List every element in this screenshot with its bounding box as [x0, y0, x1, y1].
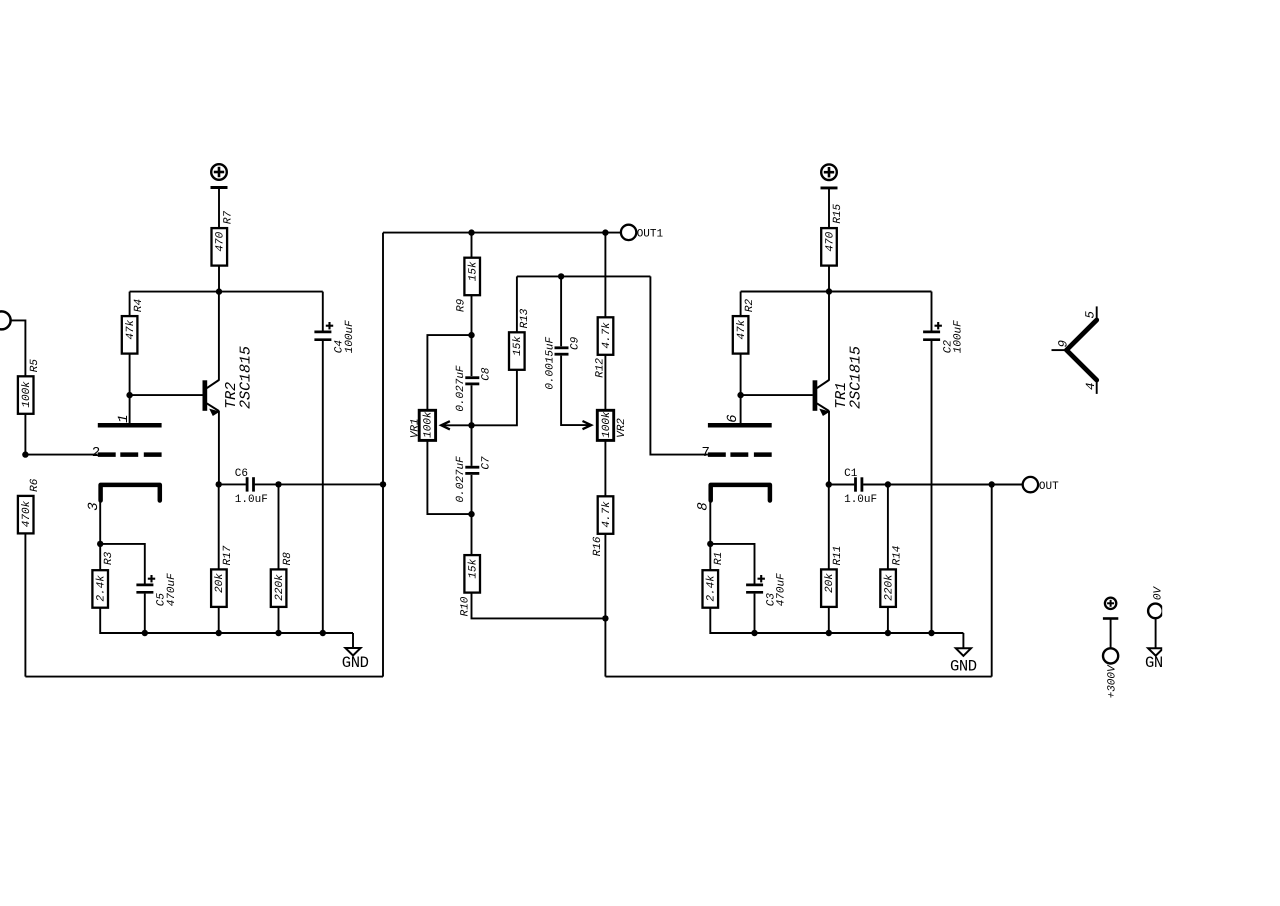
svg-text:47k: 47k — [125, 318, 137, 341]
node C7/R10/VR1 junction — [468, 511, 474, 517]
svg-text:47k: 47k — [736, 318, 748, 341]
resistor R17 — [218, 484, 220, 569]
terminal OUT1 — [621, 225, 636, 240]
node grid junction (R5/R6/grid) — [22, 451, 28, 457]
wire OUT node to terminal — [992, 484, 1023, 486]
supply symbol +300V — [1105, 598, 1116, 609]
wire VR2 to R16 — [604, 440, 606, 496]
ground symbol GND (left) — [345, 648, 360, 656]
wire rail to GND stub (left) — [352, 633, 354, 648]
capacitor C8 — [471, 335, 473, 376]
wire C6 line to feedback riser — [279, 483, 384, 485]
wire C1 line to OUT node — [888, 484, 992, 486]
wire +B to R15 — [828, 188, 830, 228]
plus mark of C4 — [326, 325, 333, 327]
node R9/C8/VR1 junction — [468, 332, 474, 338]
wire C8 to wiper node — [471, 385, 473, 425]
wire TR1 emitter down to C1 line — [828, 411, 830, 485]
wire R8 to ground rail — [278, 607, 280, 633]
plus mark of C3 — [758, 578, 765, 580]
wire C6 to R8 node — [255, 483, 279, 485]
svg-text:20k: 20k — [214, 572, 226, 595]
svg-text:OUT1: OUT1 — [637, 229, 664, 241]
resistor R15 — [821, 228, 837, 266]
capacitor C5 (electrolytic) — [136, 584, 153, 587]
wire feedback drop (right) — [604, 618, 606, 676]
svg-text:2.4k: 2.4k — [96, 574, 108, 603]
wire TR2 emitter down to C6 line — [218, 411, 220, 485]
tube V2 grid dashes (pin 7) — [708, 452, 726, 457]
node OUT1 branch junction — [602, 229, 608, 235]
svg-text:220k: 220k — [274, 573, 286, 602]
power symbol +B (left) — [211, 164, 227, 180]
wire bias node to C5 — [100, 544, 145, 584]
svg-text:0.027uF: 0.027uF — [455, 364, 467, 413]
svg-text:GND: GND — [950, 657, 977, 675]
capacitor C9 — [560, 276, 562, 346]
svg-text:R13: R13 — [519, 308, 531, 330]
svg-text:7: 7 — [702, 445, 710, 461]
node R11 ground junction — [826, 630, 832, 636]
wire R5 to grid node — [24, 414, 26, 455]
wire 0V to GND — [1155, 618, 1157, 648]
node R9 top junction — [468, 229, 474, 235]
svg-text:R15: R15 — [832, 203, 844, 225]
capacitor C3 (electrolytic) — [746, 584, 763, 587]
node collector/plate supply junction (right) — [826, 288, 832, 294]
svg-text:1.0uF: 1.0uF — [844, 494, 877, 506]
svg-text:R10: R10 — [460, 596, 472, 618]
svg-text:470k: 470k — [21, 499, 33, 528]
node base/plate junction (left) — [126, 392, 132, 398]
capacitor C7 — [471, 425, 473, 466]
svg-text:R2: R2 — [744, 298, 756, 314]
plus mark of C2 — [935, 325, 942, 327]
resistor R5 — [18, 376, 34, 414]
wire feedback bottom (right stage) — [605, 676, 991, 678]
node collector/plate supply junction (left) — [216, 288, 222, 294]
wire R12 to VR2 — [604, 355, 606, 411]
svg-text:470: 470 — [215, 231, 227, 253]
svg-text:VR2: VR2 — [616, 417, 628, 439]
wire R15 to collector node — [828, 266, 830, 292]
wire R13 to treble line — [516, 276, 518, 332]
svg-text:R14: R14 — [891, 544, 903, 567]
wire base node to tube V1 plate — [129, 395, 131, 423]
wire R11 to ground rail — [828, 607, 830, 633]
svg-text:R7: R7 — [223, 210, 235, 226]
wire R14 to ground rail — [887, 607, 889, 633]
wire wiper node to VR1 arrow — [444, 424, 472, 426]
node TR1 emitter / C1 junction — [826, 481, 832, 487]
canvas clip edge (white mask, right) — [1162, 0, 1280, 906]
svg-text:R16: R16 — [592, 535, 604, 557]
wire treble top line — [517, 275, 651, 277]
node R8 ground junction — [275, 630, 281, 636]
wire C9 to VR2 arrow — [561, 356, 590, 426]
supply terminal 0V — [1148, 604, 1163, 619]
wire rail to GND stub (right) — [962, 633, 964, 648]
svg-text:4.7k: 4.7k — [601, 500, 613, 529]
resistor R6 — [18, 496, 34, 534]
wire input terminal to R5 — [11, 320, 26, 376]
wire R9 to C8 node — [471, 295, 473, 335]
wire OUT1 line (top) — [383, 232, 621, 234]
wire R1 to ground rail — [710, 608, 754, 633]
wire R10 to bass return node — [472, 593, 606, 619]
wire bias node to C3 — [710, 544, 754, 584]
potentiometer VR2 — [597, 410, 613, 440]
wire base node to TR1 base — [741, 394, 813, 396]
wire node to VR1 top — [427, 335, 471, 410]
node base/plate junction (right) — [737, 392, 743, 398]
svg-text:100uF: 100uF — [953, 319, 965, 354]
wire C1 to R14 node — [863, 484, 888, 486]
resistor R8 — [278, 484, 280, 569]
capacitor C1 — [854, 477, 857, 491]
svg-text:220k: 220k — [883, 573, 895, 602]
terminal OUT — [1023, 477, 1038, 492]
svg-text:C7: C7 — [480, 455, 492, 471]
heater pin 9 stub — [1052, 349, 1066, 351]
wire grid node to tube V1 grid — [25, 454, 97, 456]
transistor TR2 — [203, 380, 208, 411]
wire collector node horizontal (R4 to C4) — [130, 291, 323, 293]
svg-text:100k: 100k — [21, 380, 33, 409]
ground symbol GND (right) — [956, 648, 971, 656]
node C1/R14 junction — [885, 481, 891, 487]
tube V1 plate bar (pin 1) — [98, 423, 162, 428]
wire base node to TR2 base — [130, 394, 203, 396]
tube V1 grid dashes (pin 2) — [98, 452, 116, 457]
wire bias node to R3 — [99, 544, 101, 570]
resistor R1 — [703, 570, 719, 608]
node VR1 wiper junction — [468, 422, 474, 428]
node C9 top junction — [558, 273, 564, 279]
wire R17 to ground rail — [218, 607, 220, 633]
tube V1 cathode (pin 3) — [101, 485, 160, 501]
wire C7 to R10 node — [471, 475, 473, 514]
tube V2 plate bar (pin 6) — [708, 423, 772, 428]
heater pin 5 stub — [1096, 306, 1098, 318]
wire bias node to R1 — [709, 544, 711, 570]
svg-text:+300V: +300V — [1107, 664, 1119, 700]
svg-text:100k: 100k — [423, 410, 435, 439]
wire C2 to ground rail — [931, 341, 933, 633]
svg-text:R11: R11 — [832, 544, 844, 567]
wire C5 to ground rail — [144, 594, 146, 633]
svg-text:C1: C1 — [844, 468, 858, 480]
potentiometer VR1 — [419, 410, 435, 440]
svg-text:2SC1815: 2SC1815 — [237, 344, 255, 411]
ground symbol GND (supply) — [1148, 648, 1163, 656]
resistor R11 — [828, 485, 830, 570]
svg-text:R3: R3 — [103, 551, 115, 567]
svg-text:C8: C8 — [480, 367, 492, 383]
svg-text:C6: C6 — [235, 468, 248, 480]
input terminal — [0, 311, 11, 329]
svg-text:470uF: 470uF — [776, 572, 788, 607]
svg-text:VR1: VR1 — [410, 417, 422, 440]
wire R7 to collector node — [218, 266, 220, 292]
node C5 ground junction — [142, 630, 148, 636]
capacitor C2 (electrolytic) — [931, 292, 933, 331]
resistor R13 — [509, 332, 525, 370]
wire VR1 bottom to C7 node — [427, 440, 471, 514]
node OUT junction — [989, 481, 995, 487]
node bass return junction — [602, 615, 608, 621]
wiper arrow of VR2 — [583, 421, 592, 429]
node R17 ground junction — [216, 630, 222, 636]
wire collector node horizontal (R2 to C2) — [741, 291, 932, 293]
wire +B to R7 — [218, 188, 220, 229]
node cathode bias junction (right) — [707, 541, 713, 547]
svg-text:OUT: OUT — [1039, 481, 1059, 493]
resistor R9 — [471, 233, 473, 258]
resistor R10 — [471, 514, 473, 555]
node cathode bias junction (left) — [97, 541, 103, 547]
svg-text:0.027uF: 0.027uF — [455, 455, 467, 504]
wire TR1 collector to collector node — [828, 292, 830, 381]
wire feedback riser to OUT node — [991, 485, 993, 677]
node R14 ground junction — [885, 630, 891, 636]
wire cathode to bias node — [99, 501, 101, 544]
wire R4 to base node — [129, 354, 131, 396]
wire cathode to bias node (right) — [709, 501, 711, 544]
wire R6 to feedback line — [24, 533, 26, 676]
svg-text:20k: 20k — [824, 572, 836, 595]
resistor R3 — [92, 570, 108, 608]
capacitor C4 (electrolytic) — [322, 292, 324, 331]
resistor R14 — [887, 485, 889, 570]
svg-text:C9: C9 — [570, 336, 582, 352]
svg-text:R8: R8 — [282, 551, 294, 567]
wire emitter node to C6 — [219, 483, 246, 485]
svg-text:GND: GND — [342, 654, 369, 672]
wire base node to tube V2 plate — [740, 395, 742, 423]
wire R2 to base node — [740, 354, 742, 396]
node feedback riser / C6 line junction — [380, 481, 386, 487]
node C3 ground junction — [751, 630, 757, 636]
svg-text:1.0uF: 1.0uF — [235, 494, 268, 506]
svg-text:2: 2 — [92, 445, 100, 461]
wire emitter node to C1 — [829, 484, 855, 486]
wire feedback riser x=383 — [382, 233, 384, 677]
wire R16 to bass return node — [604, 534, 606, 619]
resistor R12 — [604, 233, 606, 318]
svg-text:15k: 15k — [512, 335, 524, 358]
resistor R4 — [129, 292, 131, 317]
wire feedback bottom (left stage) — [25, 676, 383, 678]
svg-text:R5: R5 — [29, 358, 41, 374]
node C6/R8 junction — [275, 481, 281, 487]
svg-text:2SC1815: 2SC1815 — [847, 344, 865, 411]
node C2 ground junction — [928, 630, 934, 636]
capacitor C6 — [246, 477, 249, 491]
wire TR2 collector to collector node — [218, 292, 220, 381]
wire treble line to tube V2 grid — [650, 276, 708, 454]
svg-text:R17: R17 — [222, 545, 234, 567]
svg-text:R6: R6 — [29, 478, 41, 494]
svg-text:15k: 15k — [468, 260, 480, 283]
wire wiper node to R13 — [472, 370, 517, 425]
plus mark of C5 — [148, 578, 155, 580]
svg-text:100k: 100k — [601, 410, 613, 439]
wiper arrow of VR1 — [441, 421, 450, 429]
svg-text:470uF: 470uF — [166, 572, 178, 607]
svg-text:R9: R9 — [456, 298, 468, 314]
tube V2 cathode (pin 8) — [711, 485, 770, 501]
ground rail (right stage) — [755, 632, 964, 634]
node TR2 emitter / C6 junction — [216, 481, 222, 487]
heater pin 4 stub — [1096, 382, 1098, 394]
resistor R7 — [212, 228, 228, 266]
resistor R2 — [740, 292, 742, 317]
svg-text:2.4k: 2.4k — [706, 574, 718, 603]
resistor R16 — [598, 496, 614, 534]
svg-text:0.0015uF: 0.0015uF — [544, 336, 556, 391]
node C4 ground junction — [320, 630, 326, 636]
wire R3 to ground rail — [100, 608, 145, 633]
ground rail (left stage) — [145, 632, 353, 634]
svg-text:470: 470 — [824, 231, 836, 253]
transistor TR1 — [813, 380, 818, 411]
svg-text:100uF: 100uF — [344, 319, 356, 354]
wire C3 to ground rail — [754, 594, 756, 633]
svg-text:15k: 15k — [468, 557, 480, 580]
svg-text:4.7k: 4.7k — [601, 321, 613, 350]
wire C4 to ground rail — [322, 341, 324, 633]
tube heater filament (pins 4-5-9) — [1067, 320, 1097, 380]
power symbol +B (right) — [821, 164, 837, 180]
